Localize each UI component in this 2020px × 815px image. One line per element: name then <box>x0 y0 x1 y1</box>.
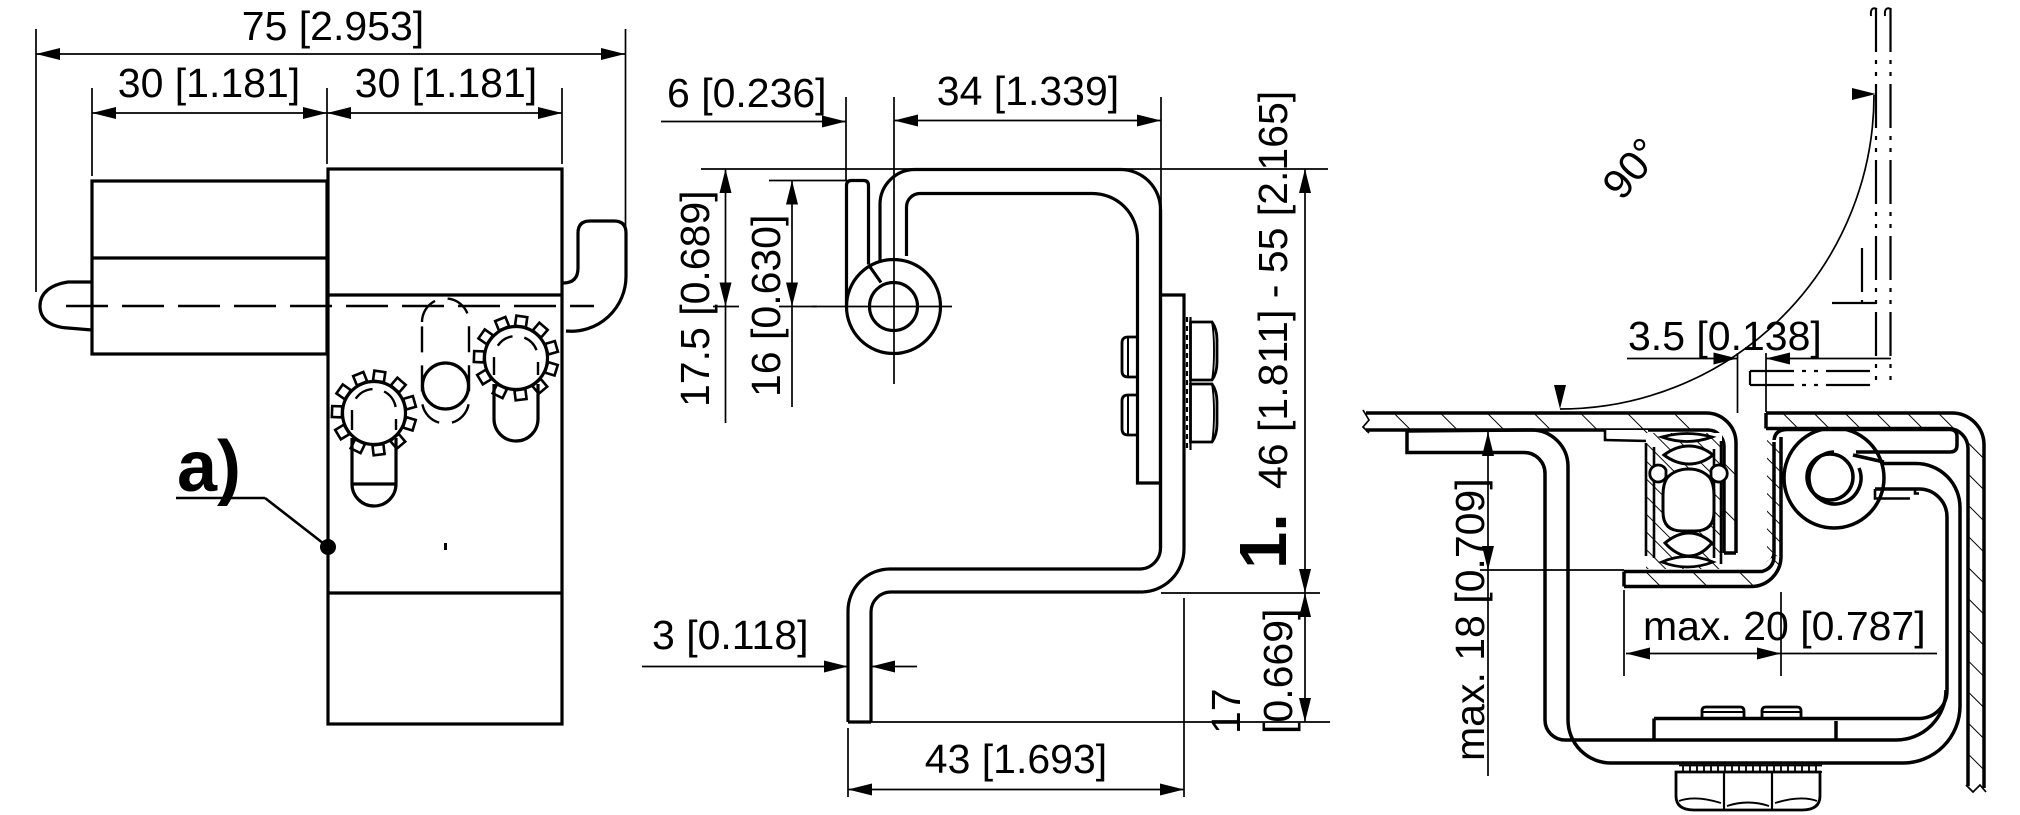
frame top panel (hatched) <box>1363 410 1736 553</box>
door leaf outer top surface <box>848 170 1161 723</box>
frame clamp lip (hatched step under panel) <box>1605 430 1648 441</box>
svg-text:75 [2.953]: 75 [2.953] <box>242 3 424 49</box>
strip A (bracket top strip to door) <box>1774 430 1957 453</box>
svg-text:1.: 1. <box>1226 513 1301 569</box>
hidden slot (center, dashed) with stud circle <box>422 299 469 424</box>
strip end diagonal into pin <box>869 266 881 283</box>
svg-text:30 [1.181]: 30 [1.181] <box>118 60 300 106</box>
white voids with outlines <box>1662 434 1712 442</box>
stud head 1 <box>1702 707 1744 719</box>
hinge bracket section <box>1407 430 1960 763</box>
dimension 17.5 [0.689] (vertical) <box>713 169 739 423</box>
knuckle: pin <box>1807 454 1853 500</box>
dimension 46 [1.811] - 55 [2.165] (vertical right) <box>1299 169 1311 722</box>
screw head upper <box>1122 337 1138 377</box>
leg + inner surface down the wall to flange top <box>1407 431 1946 740</box>
hex nut upper <box>1191 322 1218 380</box>
door leaf sheet end inner <box>907 194 921 257</box>
max. 18 [0.709] dimension <box>1480 432 1624 776</box>
lock washer W2 (upper-right stud) <box>474 316 558 441</box>
tiny reference dot <box>444 543 447 550</box>
pin centerlines <box>812 306 952 308</box>
dimension 3 [0.118] <box>642 661 917 673</box>
bottom edge of leg <box>848 720 871 723</box>
svg-text:17: 17 <box>1203 688 1249 734</box>
right plate outline <box>328 169 562 724</box>
door leaf bottom flange with stud plate <box>1654 464 1960 741</box>
clamp plate (hatched) <box>1624 556 1781 587</box>
svg-text:max. 18 [0.709]: max. 18 [0.709] <box>1447 478 1493 761</box>
serrated washer under bracket flange <box>1679 766 1822 773</box>
dimension 3.5 [0.138] <box>1627 353 1891 414</box>
left leaf rectangle <box>92 181 327 354</box>
door leaf sheet end outer (hangs into curl) <box>880 170 915 261</box>
stud plate <box>1161 295 1185 549</box>
door panel (hatched) <box>1766 413 1986 792</box>
serrated washer column (dashed) <box>1184 317 1191 450</box>
svg-text:3 [0.118]: 3 [0.118] <box>652 612 809 658</box>
90-degree swing arc with arrows <box>1554 88 1876 409</box>
svg-text:43 [1.693]: 43 [1.693] <box>925 736 1107 782</box>
knuckle inner wrap <box>1809 452 1861 504</box>
svg-text:max. 20 [0.787]: max. 20 [0.787] <box>1643 603 1926 649</box>
step lower surface <box>871 549 1184 722</box>
clamp lip (hatched) <box>1767 437 1781 563</box>
outer surface <box>1407 430 1611 763</box>
screw head lower <box>1122 395 1138 435</box>
hex nut bottom <box>1676 772 1820 810</box>
dimension 75 [2.953] <box>36 29 626 292</box>
door leaf inner surface <box>920 194 1161 484</box>
leaf sheet-end tab <box>1875 489 1919 499</box>
dimension 16 [0.630] (vertical) <box>779 181 817 408</box>
svg-text:30 [1.181]: 30 [1.181] <box>355 60 537 106</box>
outer curl of frame leaf (full circle) <box>847 260 941 354</box>
svg-text:6 [0.236]: 6 [0.236] <box>667 70 827 116</box>
stud head 2 <box>1762 707 1801 719</box>
max. 20 [0.787] dimension <box>1624 590 1937 676</box>
dimension 43 [1.693] <box>848 598 1184 797</box>
gasket extrusion section (hatched body) <box>1646 433 1727 569</box>
sheet end face diagonal <box>1853 455 1884 462</box>
svg-text:a): a) <box>177 427 241 507</box>
svg-text:16 [0.630]: 16 [0.630] <box>743 215 789 397</box>
knuckle outer curl (full circle) <box>1784 428 1884 528</box>
thin reference lines <box>701 169 1330 722</box>
svg-text:3.5 [0.138]: 3.5 [0.138] <box>1628 313 1822 359</box>
centerline <box>66 305 594 307</box>
phantom open-door lines (dash-dot-dot) <box>1750 8 1891 385</box>
hinge pin protruding left <box>40 282 92 330</box>
dimension 6 [0.236] <box>661 97 846 180</box>
svg-text:34 [1.339]: 34 [1.339] <box>937 68 1119 114</box>
phantom break marks at top <box>1871 8 1891 16</box>
hidden slot arcs under washer (dashed) <box>352 389 396 430</box>
svg-text:46 [1.811] - 55 [2.165]: 46 [1.811] - 55 [2.165] <box>1250 91 1296 489</box>
svg-text:17.5 [0.689]: 17.5 [0.689] <box>672 190 718 407</box>
solid oblong below washer <box>352 438 396 506</box>
frame leaf strip <box>847 181 869 307</box>
lock washer W1 (lower-left stud) <box>332 371 416 506</box>
dimension 30 [1.181] left <box>92 88 562 176</box>
hex nut lower <box>1191 384 1218 442</box>
dimension 34 [1.339] <box>894 97 1161 384</box>
door-leaf hook (top view of curled leaf) <box>563 221 626 331</box>
pin circle <box>870 283 918 331</box>
phantom flange stubs <box>1749 371 1751 385</box>
svg-text:[0.669]: [0.669] <box>1255 609 1301 734</box>
